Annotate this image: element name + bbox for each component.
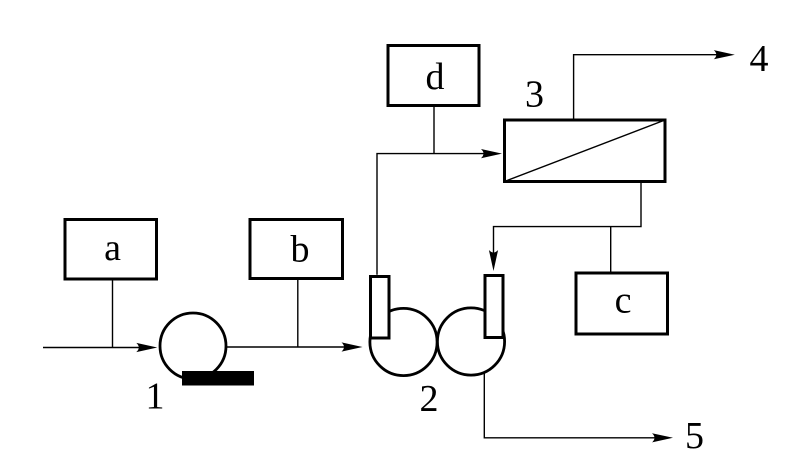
wire: feed line into pump 1 — [43, 343, 157, 352]
box d — [388, 46, 479, 106]
pump P1 — [160, 313, 226, 379]
svg-text:4: 4 — [750, 38, 769, 80]
wire: membrane bottom to right port of rollers 2 — [489, 183, 641, 271]
svg-text:3: 3 — [525, 74, 544, 116]
wire: branch down to box c — [610, 227, 612, 273]
membrane module 3 — [505, 120, 666, 182]
wire: pump 1 to rollers 2 — [226, 342, 363, 351]
wire: rollers 2 to output 5 — [484, 372, 673, 442]
wire: drop from box a — [112, 279, 114, 348]
wire: riser from node to membrane 3 with arrow — [377, 149, 502, 275]
svg-text:1: 1 — [146, 376, 165, 418]
box b — [250, 220, 343, 279]
wire: drop from box b — [297, 279, 299, 347]
svg-text:b: b — [291, 229, 310, 271]
svg-text:2: 2 — [420, 378, 439, 420]
svg-text:5: 5 — [685, 415, 704, 450]
rollers 2 (right circle) — [437, 308, 504, 375]
wire: drop from box d — [433, 105, 435, 154]
box a — [65, 220, 157, 280]
pump base (filled bar) — [182, 371, 254, 386]
svg-text:c: c — [615, 280, 632, 322]
rollers 2 (left circle) — [370, 308, 437, 375]
svg-text:d: d — [426, 56, 445, 98]
wire: membrane top to output 4 — [574, 50, 735, 118]
roller 2 right port rectangle — [485, 276, 503, 338]
box c — [576, 273, 668, 334]
svg-text:a: a — [104, 227, 121, 269]
roller 2 left port rectangle — [371, 277, 390, 339]
